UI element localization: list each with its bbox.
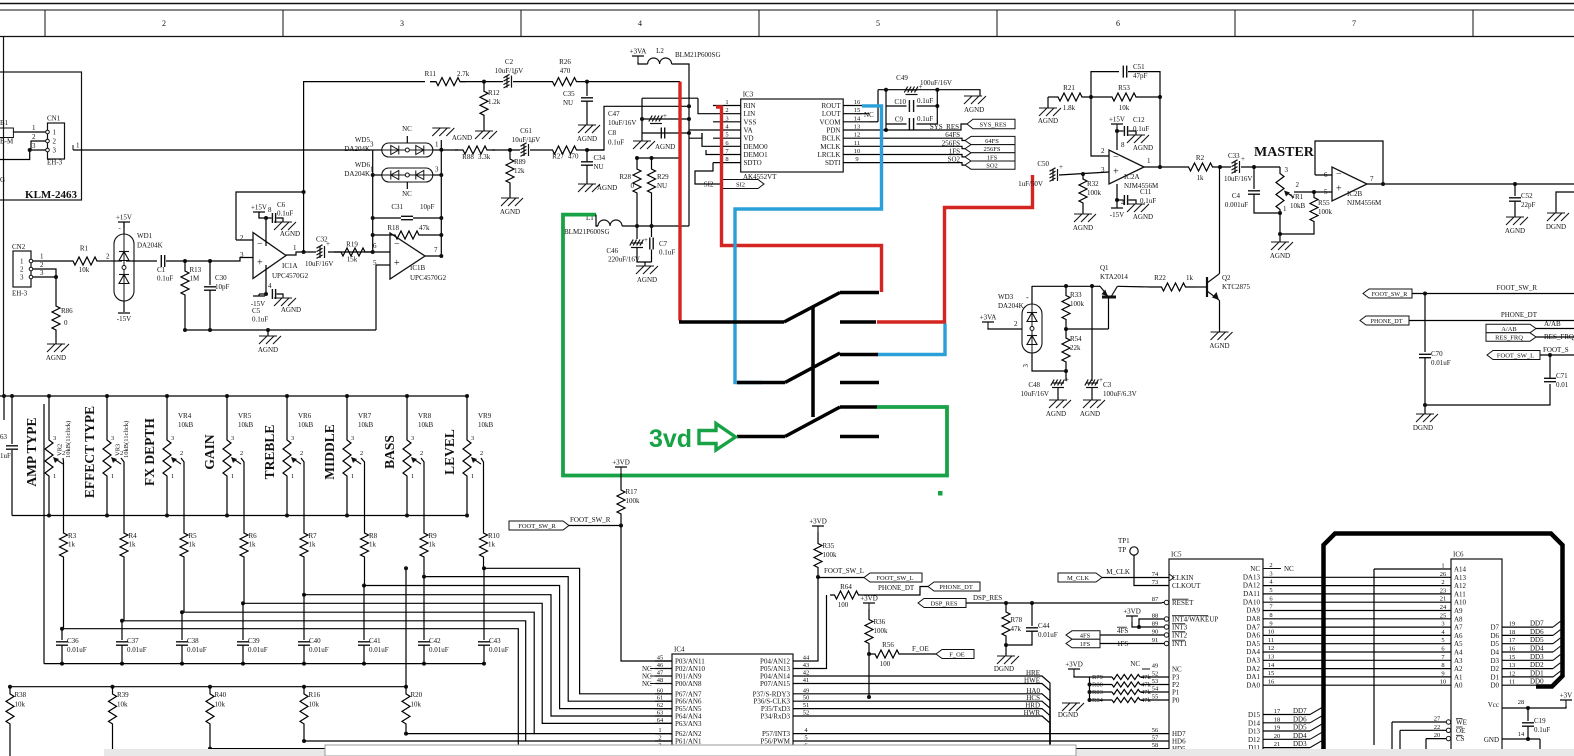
- svg-text:C51: C51: [1133, 63, 1145, 71]
- net flag 4FS: [1066, 631, 1100, 640]
- wire C6 left: [266, 217, 272, 219]
- IC4 NC tick 47: [650, 675, 656, 677]
- IC6 A2 wire: [1263, 668, 1451, 670]
- svg-text:1: 1: [471, 473, 474, 480]
- svg-text:VR9: VR9: [478, 412, 492, 420]
- svg-text:C43: C43: [489, 637, 501, 645]
- svg-text:WE: WE: [1456, 719, 1467, 727]
- VR5 top lead: [226, 396, 228, 436]
- capacitor C3: [1085, 376, 1103, 388]
- svg-text:+3VD: +3VD: [860, 595, 878, 603]
- IC1A pin8 wire: [265, 218, 267, 246]
- analog bottom rail: [185, 329, 376, 331]
- svg-text:C36: C36: [67, 637, 79, 645]
- svg-text:R64: R64: [840, 583, 852, 591]
- DSP_RES wire: [966, 602, 1162, 604]
- ground AGND C11: [1127, 204, 1149, 212]
- svg-text:R28: R28: [619, 173, 631, 181]
- ground AGND C52: [1506, 217, 1528, 225]
- wire R11 row to left: [304, 82, 425, 192]
- R89 to AGND: [509, 192, 511, 198]
- svg-text:47: 47: [657, 670, 664, 677]
- WD6 right lead: [433, 174, 442, 176]
- wire C6 right: [277, 218, 284, 222]
- wire C32 R19 to IC1B: [328, 251, 390, 253]
- svg-text:6: 6: [1269, 595, 1273, 602]
- IC5 CLKIN chevron: [1169, 574, 1174, 581]
- junction C38: [180, 610, 184, 614]
- VR3 bottom lead: [106, 480, 108, 516]
- capacitor C34: [581, 162, 593, 165]
- svg-text:0.001uF: 0.001uF: [1225, 201, 1248, 209]
- wire R27 right: [577, 149, 604, 151]
- DGND bottom drop: [1424, 405, 1426, 414]
- svg-text:A10: A10: [1454, 599, 1467, 607]
- diode pack WD3: [1022, 304, 1042, 353]
- svg-text:R79: R79: [1092, 674, 1103, 681]
- svg-text:Q1: Q1: [1100, 264, 1109, 272]
- svg-text:IC2A: IC2A: [1124, 173, 1140, 181]
- svg-text:DGND: DGND: [1058, 711, 1078, 719]
- right supply col: [936, 90, 938, 124]
- svg-text:PHONE_DT: PHONE_DT: [939, 584, 973, 591]
- IC3 pin 7 DEMO1 stub: [713, 154, 741, 156]
- svg-text:3vd: 3vd: [649, 425, 692, 453]
- wire C47 left col: [641, 98, 643, 139]
- wire m15 stem: [258, 294, 260, 296]
- svg-text:1k: 1k: [1186, 274, 1194, 282]
- svg-text:DA4: DA4: [1246, 648, 1260, 656]
- svg-text:P34/RxD3: P34/RxD3: [760, 713, 790, 721]
- svg-text:DD0: DD0: [1530, 678, 1544, 686]
- SYS_RES wire: [886, 124, 967, 130]
- svg-text:R84: R84: [1092, 697, 1104, 704]
- pot bottom rail: [12, 515, 467, 517]
- svg-text:10kB(11click): 10kB(11click): [65, 421, 72, 458]
- svg-text:RIN: RIN: [744, 102, 756, 110]
- junction C4: [1252, 165, 1256, 169]
- potentiometer VR3 wiper: [111, 457, 121, 464]
- svg-text:IC5: IC5: [1171, 551, 1182, 559]
- svg-text:15: 15: [1268, 670, 1275, 677]
- svg-text:0.01uF: 0.01uF: [369, 646, 389, 654]
- svg-text:D12: D12: [1248, 736, 1261, 744]
- svg-text:IC1B: IC1B: [410, 264, 426, 272]
- svg-text:C71: C71: [1556, 372, 1568, 380]
- svg-text:NC: NC: [864, 111, 874, 119]
- svg-text:1: 1: [40, 253, 44, 261]
- svg-text:74: 74: [1152, 571, 1159, 578]
- svg-text:WD5: WD5: [355, 136, 371, 144]
- R35 bottom wire: [817, 570, 819, 577]
- R40 bottom lead: [209, 731, 211, 749]
- 1FS wire: [1100, 643, 1164, 645]
- junction R16 top: [302, 685, 306, 689]
- svg-text:2: 2: [180, 450, 183, 457]
- svg-text:DA204K: DA204K: [344, 170, 370, 178]
- R21 left wire: [1048, 96, 1057, 98]
- FOOT_SW_R wire: [569, 525, 621, 527]
- wire IC1B +in drop: [375, 265, 377, 330]
- junction R80: [1088, 683, 1092, 687]
- bus wire R8 to IC4: [365, 586, 673, 709]
- capacitor C49: [904, 83, 922, 95]
- C37 bottom lead: [121, 646, 123, 664]
- wire C47 col top: [642, 97, 698, 99]
- 256FS wire: [869, 146, 965, 148]
- IC4 pin 48 stub: [655, 683, 672, 685]
- svg-text:PDN: PDN: [826, 127, 840, 135]
- IC5 D12 bus wire: [1263, 738, 1310, 740]
- diode pack WD1: [114, 234, 134, 301]
- svg-text:R5: R5: [189, 532, 198, 540]
- svg-text:2: 2: [32, 133, 36, 141]
- svg-text:0.1uF: 0.1uF: [252, 316, 268, 324]
- svg-text:10kB: 10kB: [478, 421, 494, 429]
- resistor R3: [60, 530, 68, 560]
- svg-text:R19: R19: [346, 241, 358, 249]
- junction C39 gnd: [241, 662, 245, 666]
- svg-text:1k: 1k: [68, 541, 76, 549]
- resistor R4: [120, 530, 128, 560]
- potentiometer VR9 wiper: [471, 457, 481, 464]
- svg-text:R36: R36: [874, 618, 886, 626]
- svg-text:14: 14: [1518, 731, 1525, 738]
- IC4 bus wire HRD: [793, 709, 1050, 756]
- wire CN2 pin1 to R1: [33, 260, 72, 262]
- R29 col: [651, 158, 653, 166]
- resistor R20: [402, 687, 410, 731]
- svg-text:FOOT_SW_R: FOOT_SW_R: [1497, 284, 1538, 292]
- svg-text:+3VD: +3VD: [1123, 608, 1141, 616]
- switch SW2 arm: [785, 353, 840, 383]
- resistor R1: [72, 257, 98, 265]
- capacitor C5: [272, 289, 275, 299]
- C63 column: [11, 396, 13, 444]
- svg-text:FOOT_SW_L: FOOT_SW_L: [876, 575, 913, 582]
- junction C41 gnd: [362, 662, 366, 666]
- IC2A out to fb: [1159, 97, 1161, 167]
- resistor R21: [1057, 93, 1083, 101]
- svg-text:SO2: SO2: [948, 156, 961, 164]
- resistor R56: [869, 650, 905, 658]
- title strip divider 4: [758, 10, 760, 37]
- VR5 bottom lead: [226, 480, 228, 516]
- R21 gnd wire: [1047, 97, 1049, 108]
- wire CN1 pin3: [30, 149, 46, 151]
- svg-text:NU: NU: [594, 163, 604, 171]
- capacitor C1: [161, 255, 164, 267]
- net flag SI2: [721, 180, 764, 189]
- svg-text:1: 1: [370, 166, 374, 174]
- potentiometer VR4 wiper: [171, 457, 181, 464]
- resistor R16: [300, 687, 308, 731]
- svg-text:DA1: DA1: [1246, 673, 1260, 681]
- junction R16 bus: [302, 739, 306, 743]
- svg-text:VR6: VR6: [298, 412, 312, 420]
- svg-text:10kB: 10kB: [418, 421, 434, 429]
- junction R20 riser top: [404, 566, 408, 570]
- C50 to +in: [1059, 172, 1109, 175]
- WD network left column: [372, 150, 374, 252]
- svg-text:58: 58: [1152, 742, 1159, 749]
- left col partial: [3, 396, 5, 420]
- ground at CS: [1409, 750, 1431, 756]
- resistor R53: [1111, 93, 1137, 101]
- ground AGND WD5: [432, 128, 454, 136]
- junction C63 top: [10, 394, 14, 398]
- svg-text:DD6: DD6: [1530, 628, 1544, 636]
- C34 bottom: [586, 165, 588, 184]
- svg-text:1: 1: [111, 473, 114, 480]
- C41 top lead: [363, 586, 365, 641]
- IC3 pin 12 BCLK stub: [843, 137, 869, 139]
- C9 row: [886, 123, 907, 125]
- svg-text:C32: C32: [316, 236, 328, 244]
- IC6 D3 bus wire: [1502, 659, 1553, 661]
- C38 top lead: [181, 612, 183, 640]
- IC6 DD0 bus merge: [1553, 678, 1562, 685]
- R79 right wire: [1140, 676, 1169, 678]
- C43 top lead: [483, 568, 485, 640]
- svg-text:2: 2: [420, 450, 423, 457]
- junction c47 left: [640, 117, 644, 121]
- svg-text:C34: C34: [594, 154, 606, 162]
- svg-text:A5: A5: [1454, 640, 1463, 648]
- row150 tick: [72, 145, 74, 150]
- svg-text:VR3: VR3: [115, 444, 122, 456]
- IC U-IC3 AK4552VT: [741, 99, 844, 172]
- ground AGND VR1: [1271, 242, 1293, 250]
- C38 bottom lead: [181, 646, 183, 664]
- C3 col wire: [1091, 286, 1093, 381]
- svg-text:1: 1: [411, 473, 414, 480]
- gnd drop C46: [644, 262, 646, 266]
- capacitor C19: [1522, 723, 1534, 726]
- C48 wire: [1065, 371, 1067, 381]
- svg-text:15: 15: [854, 107, 861, 114]
- svg-text:R13: R13: [190, 266, 202, 274]
- svg-text:D1: D1: [1490, 673, 1499, 681]
- IC U-IC5 DSP: [1169, 559, 1263, 756]
- svg-text:SI2: SI2: [736, 181, 745, 188]
- svg-text:3.3k: 3.3k: [478, 153, 491, 161]
- IC3 pin 9 SDTI stub: [843, 162, 869, 164]
- VR4 wiper wire: [181, 458, 184, 530]
- IC4 pin 64 stub: [655, 722, 672, 724]
- svg-text:C10: C10: [894, 98, 906, 106]
- svg-text:DA204K: DA204K: [998, 302, 1024, 310]
- junction C42 gnd: [422, 662, 426, 666]
- svg-text:DSP_RES: DSP_RES: [930, 600, 957, 607]
- potentiometer VR6: [283, 436, 291, 480]
- IC6 D6 bus wire: [1502, 634, 1553, 636]
- Q2 emitter wire: [1218, 300, 1221, 332]
- svg-text:IC3: IC3: [743, 91, 754, 99]
- C52 top wire: [1514, 184, 1516, 196]
- resistor R26: [552, 78, 577, 86]
- svg-text:VSS: VSS: [744, 118, 757, 126]
- junction VR2 bottom: [47, 514, 51, 518]
- svg-text:D5: D5: [1490, 640, 1499, 648]
- svg-text:CLKIN: CLKIN: [1172, 574, 1193, 582]
- transistor Q1 KTA2014: [1100, 286, 1117, 297]
- junction C43 gnd: [482, 662, 486, 666]
- IC5 pin INT4/WAKEUP circle: [1164, 617, 1168, 621]
- svg-text:87: 87: [1152, 596, 1159, 603]
- svg-text:FOOT_SW_R: FOOT_SW_R: [570, 516, 611, 524]
- svg-text:C3: C3: [1103, 381, 1112, 389]
- IC6 A11 wire: [1263, 593, 1451, 595]
- title strip divider 3: [520, 10, 522, 37]
- wire VA row: [689, 129, 713, 131]
- 1FS wire: [869, 155, 965, 157]
- wire C47 row: [642, 118, 689, 120]
- PDN wire: [869, 129, 886, 131]
- svg-text:RES_FRQ: RES_FRQ: [1495, 334, 1523, 341]
- IC5 D14 bus wire: [1263, 722, 1310, 724]
- svg-text:SDTI: SDTI: [825, 159, 841, 167]
- svg-text:-15V: -15V: [117, 315, 131, 323]
- svg-text:C38: C38: [187, 637, 199, 645]
- svg-text:12: 12: [1268, 645, 1275, 652]
- power +15V IC2A: [1111, 124, 1123, 130]
- R12 to AGND: [483, 125, 485, 131]
- R83 left wire: [1090, 691, 1113, 693]
- svg-text:DGND: DGND: [1413, 424, 1433, 432]
- VCOM riser: [877, 90, 879, 122]
- svg-text:2: 2: [20, 266, 24, 274]
- CN1 pin 2 circle: [46, 139, 50, 143]
- IC4 pin6 long wire: [793, 748, 1169, 750]
- svg-text:100: 100: [838, 601, 849, 609]
- capacitor C7: [650, 238, 653, 250]
- transistor Q2 KTC2875: [1207, 274, 1219, 300]
- svg-text:BLM21P600SG: BLM21P600SG: [675, 51, 721, 59]
- C70 bottom wire: [1425, 358, 1550, 405]
- title strip divider 2: [282, 10, 284, 37]
- wire IC1B +in: [376, 264, 390, 266]
- IC5 DD5 bus merge: [1310, 724, 1322, 731]
- resistor R83: [1112, 689, 1140, 694]
- resistor R78: [1002, 603, 1010, 645]
- junction VR5 top: [225, 394, 229, 398]
- svg-text:DD2: DD2: [1530, 661, 1544, 669]
- svg-text:10: 10: [854, 148, 861, 155]
- svg-text:+: +: [1336, 183, 1342, 194]
- title strip divider 7: [1472, 10, 1474, 37]
- svg-text:3: 3: [231, 435, 234, 442]
- red +3VA rail wire: [678, 82, 681, 321]
- resistor R64: [830, 591, 863, 599]
- svg-text:9: 9: [1269, 620, 1272, 627]
- svg-text:EH-3: EH-3: [12, 290, 28, 298]
- 3vd arrow: [699, 424, 736, 451]
- power +3VD INT: [1126, 616, 1138, 622]
- green L1 wire: [563, 215, 947, 476]
- svg-text:−: −: [394, 239, 400, 250]
- resistor R27: [552, 146, 577, 154]
- svg-text:AGND: AGND: [452, 134, 472, 142]
- svg-text:P1: P1: [1172, 689, 1180, 697]
- resistor R19: [334, 248, 372, 256]
- VR7 top lead: [346, 396, 348, 436]
- wire R1 to WD1: [98, 260, 114, 262]
- svg-text:DA2: DA2: [1246, 665, 1260, 673]
- junction C19 bottom: [1526, 737, 1530, 741]
- IC6 pin CS label: [1456, 735, 1465, 743]
- C33 to VR1: [1241, 166, 1280, 168]
- junction R54 bottom: [1064, 369, 1068, 373]
- svg-text:WD3: WD3: [998, 293, 1014, 301]
- junction R12: [482, 80, 486, 84]
- svg-text:-: -: [1026, 293, 1029, 302]
- svg-text:3: 3: [435, 166, 439, 174]
- IC3 pin 11 MCLK stub: [843, 145, 869, 147]
- wire L2 out: [672, 64, 689, 98]
- bus wire R4 to IC4: [124, 621, 672, 741]
- svg-text:AGND: AGND: [964, 106, 984, 114]
- IC4 pin 62 stub: [655, 708, 672, 710]
- svg-text:48: 48: [657, 677, 664, 684]
- svg-text:3: 3: [1285, 166, 1289, 174]
- junction R40 bus: [208, 747, 212, 751]
- R40 bus row: [210, 748, 518, 750]
- svg-text:A11: A11: [1454, 590, 1466, 598]
- potentiometer VR5: [223, 436, 231, 480]
- junction WD5 right: [439, 148, 443, 152]
- svg-text:VD: VD: [744, 135, 754, 143]
- junction L2 119: [687, 117, 691, 121]
- IC6 WE wire: [1392, 721, 1446, 723]
- svg-text:2: 2: [240, 234, 244, 242]
- R17 down to IC4: [621, 526, 672, 662]
- potentiometer VR7 wiper: [351, 457, 361, 464]
- KLM-2463 block box: [0, 72, 82, 200]
- junction R83: [1088, 690, 1092, 694]
- green stray dot: [938, 491, 943, 496]
- svg-text:3: 3: [471, 435, 474, 442]
- power -15V IC2A bar: [1111, 207, 1123, 209]
- svg-text:1: 1: [76, 142, 80, 150]
- svg-text:C6: C6: [277, 201, 286, 209]
- svg-text:SI2: SI2: [704, 181, 714, 189]
- IC5 D10 bus wire: [1263, 755, 1310, 756]
- R38 bottom lead: [9, 731, 11, 756]
- junction R53 left: [1089, 95, 1093, 99]
- IC6 pin CS circle: [1446, 736, 1450, 740]
- diode pack WD5: [382, 143, 433, 157]
- potentiometer VR1: [1276, 170, 1284, 213]
- bus wire R3 to IC4: [64, 629, 673, 749]
- svg-text:R56: R56: [882, 641, 894, 649]
- net flag A/AB: [1486, 324, 1536, 333]
- R55 bottom wire: [1280, 227, 1314, 234]
- potentiometer VR8 wiper: [411, 457, 421, 464]
- svg-text:FOOT_SW_R: FOOT_SW_R: [1372, 291, 1409, 298]
- capacitor C43: [478, 642, 490, 645]
- wire CN1 pin3 down-left: [0, 150, 30, 160]
- svg-text:100k: 100k: [1087, 189, 1102, 197]
- IC2A -in wire: [1091, 97, 1109, 156]
- svg-text:1k: 1k: [189, 541, 197, 549]
- capacitor C50: [1050, 163, 1064, 181]
- IC6 D0 bus wire: [1502, 684, 1553, 686]
- svg-text:0.01uF: 0.01uF: [1038, 631, 1058, 639]
- svg-text:C44: C44: [1038, 622, 1050, 630]
- IC6 D5 bus wire: [1502, 643, 1553, 645]
- wire IC1A +in: [210, 258, 253, 262]
